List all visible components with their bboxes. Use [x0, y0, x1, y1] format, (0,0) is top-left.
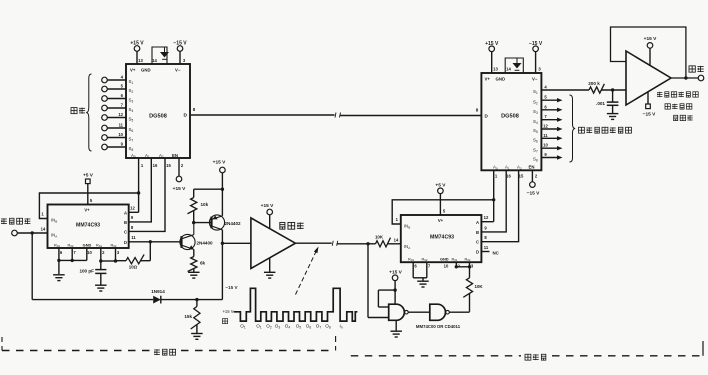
svg-text:C: C: [124, 230, 127, 235]
svg-text:8: 8: [131, 225, 134, 230]
ground under C2: [607, 114, 619, 120]
svg-text:12: 12: [543, 124, 548, 129]
svg-text:O2: O2: [266, 324, 272, 330]
svg-text:S7: S7: [129, 137, 134, 143]
U6 +15V supply terminal: [644, 36, 657, 65]
U4 output C wire to U3 A2: [481, 170, 518, 241]
svg-text:EN: EN: [172, 153, 178, 158]
svg-text:S3: S3: [129, 98, 134, 104]
svg-text:16: 16: [506, 174, 511, 179]
svg-text:R02: R02: [68, 242, 74, 248]
resistor R5 10k on receive clock input: [366, 235, 401, 247]
U1 address A1 wire: [129, 158, 158, 222]
svg-text:R01: R01: [452, 256, 458, 262]
ground under U4 pins 6,7: [417, 281, 429, 287]
svg-text:−15 V: −15 V: [225, 285, 238, 290]
binary counter U2 MM74C93 body: [48, 205, 129, 249]
svg-text:S5: S5: [533, 128, 538, 134]
input terminal S6 (pin 11): [102, 123, 134, 134]
waveform annotation arrow: [296, 247, 319, 295]
receive-end dashed border (jieshouduan): [351, 341, 703, 360]
svg-text:S6: S6: [533, 138, 538, 144]
svg-text:S1: S1: [533, 89, 538, 95]
svg-text:+15 V: +15 V: [173, 186, 186, 192]
svg-text:MM74C93: MM74C93: [430, 235, 454, 241]
svg-text:10: 10: [543, 143, 548, 148]
svg-text:7: 7: [428, 264, 431, 269]
U4 +5V supply terminal (pin 5): [435, 183, 446, 215]
svg-text:GND: GND: [141, 68, 151, 73]
NAND gate U5b: [408, 304, 469, 320]
svg-text:MM74C93: MM74C93: [76, 223, 100, 229]
svg-text:V−: V−: [532, 77, 538, 82]
svg-text:O7: O7: [316, 324, 322, 330]
svg-text:V+: V+: [438, 218, 444, 223]
svg-text:D: D: [476, 250, 479, 255]
receive counter U4 MM74C93 body: [401, 215, 482, 262]
svg-text:C: C: [476, 240, 479, 245]
svg-text:S2: S2: [129, 88, 134, 94]
svg-text:9: 9: [121, 142, 124, 147]
svg-text:O5: O5: [296, 324, 302, 330]
FET-input op-amp U6: [626, 51, 671, 105]
svg-text:12: 12: [484, 215, 489, 220]
svg-text:14: 14: [394, 237, 399, 242]
svg-text:10K: 10K: [375, 235, 384, 240]
input brace and label (shuru): [71, 74, 92, 151]
ground under U2 reset bus: [53, 275, 65, 281]
U5a pull-up to +15V terminal: [378, 269, 402, 307]
svg-text:8: 8: [193, 107, 196, 112]
svg-text:S1: S1: [129, 79, 134, 85]
svg-text:O1: O1: [240, 324, 246, 330]
waveform level label di (ground): [223, 319, 228, 324]
svg-text:2N4400: 2N4400: [197, 241, 214, 246]
svg-text:11: 11: [131, 235, 136, 240]
svg-text:S8: S8: [533, 157, 538, 163]
svg-text:R01: R01: [54, 242, 60, 248]
svg-text:+15 V: +15 V: [644, 36, 657, 42]
svg-text:3: 3: [538, 67, 541, 72]
svg-text:6: 6: [414, 264, 417, 269]
svg-text:INB: INB: [51, 218, 57, 224]
U1 output D (pin 8) wire to receive side: [190, 107, 481, 118]
svg-text:5: 5: [121, 84, 124, 89]
svg-text:11: 11: [119, 123, 124, 128]
input terminal S1 (pin 4): [102, 75, 134, 86]
input terminal S8 (pin 9): [102, 142, 134, 153]
resistor R2 10k: [187, 188, 224, 225]
A1 +15V supply terminal: [261, 203, 274, 229]
svg-text:V−: V−: [175, 68, 181, 73]
resistor R3 6k on Q2 emitter: [188, 249, 206, 272]
svg-text:12: 12: [118, 112, 123, 117]
U3 enable EN to -15V terminal: [495, 170, 540, 196]
U3 +15V supply terminal (pin 13): [485, 41, 499, 73]
buffer op-amp A1 (huanchongqi): [251, 218, 304, 269]
diode D1 1N914 on sync line: [32, 233, 222, 304]
svg-text:6: 6: [544, 104, 547, 109]
ground under R4: [191, 334, 203, 340]
svg-text:O8: O8: [325, 324, 331, 330]
svg-text:DG508: DG508: [149, 114, 167, 120]
analog multiplexer U1 DG508 body: [126, 64, 190, 159]
svg-text:S7: S7: [533, 147, 538, 153]
svg-text:INB: INB: [404, 224, 410, 230]
svg-text:S8: S8: [129, 146, 134, 152]
svg-text:7: 7: [73, 250, 76, 255]
svg-text:NC: NC: [493, 251, 500, 256]
svg-text:13: 13: [493, 67, 498, 72]
svg-text:14: 14: [41, 227, 46, 232]
svg-text:10Ω: 10Ω: [129, 265, 138, 270]
svg-text:1: 1: [495, 174, 498, 179]
resistor R7 200k: [541, 81, 626, 93]
svg-text:10: 10: [444, 264, 449, 269]
svg-text:+15 V: +15 V: [261, 203, 274, 209]
svg-text:2: 2: [102, 250, 105, 255]
analog multiplexer U3 DG508 body: [481, 73, 541, 171]
svg-text:S6: S6: [129, 127, 134, 133]
+15V supply terminal above Q1: [213, 160, 226, 216]
svg-text:S3: S3: [533, 109, 538, 115]
svg-text:B: B: [476, 230, 479, 235]
U4 output B wire to U3 A1: [481, 170, 506, 232]
svg-text:11: 11: [484, 245, 489, 250]
svg-text:16: 16: [153, 163, 158, 168]
svg-text:GND: GND: [440, 256, 449, 261]
svg-text:15: 15: [519, 174, 524, 179]
resistor R6 10k: [463, 267, 483, 312]
U6 feedback loop wire: [611, 27, 686, 78]
svg-text:GND: GND: [496, 77, 506, 82]
svg-text:V+: V+: [84, 208, 90, 213]
svg-text:11: 11: [543, 133, 548, 138]
U2 output B (pin 9): [131, 215, 134, 220]
U2 clock input terminal (shizhong shuru): [1, 218, 48, 236]
svg-text:2: 2: [535, 174, 538, 179]
ground under A1: [264, 258, 276, 278]
svg-text:+15 V: +15 V: [222, 309, 233, 314]
svg-text:5: 5: [443, 209, 446, 214]
svg-text:7: 7: [121, 103, 124, 108]
svg-text:2N4402: 2N4402: [225, 221, 242, 226]
svg-text:3: 3: [183, 58, 186, 63]
svg-text:O6: O6: [306, 324, 312, 330]
svg-text:+15 V: +15 V: [213, 160, 226, 166]
transmit-end dashed border (fasongduan): [2, 336, 336, 355]
svg-text:4: 4: [121, 75, 124, 80]
svg-text:4: 4: [544, 85, 547, 90]
svg-text:O4: O4: [285, 324, 291, 330]
svg-text:A: A: [476, 220, 479, 225]
resistor R4 15k to ground: [184, 300, 200, 333]
capacitor C1 100pF on pin 2 node: [79, 248, 117, 285]
svg-text:1: 1: [41, 212, 44, 217]
svg-text:100 pF: 100 pF: [79, 268, 94, 273]
U2 output D (pin 11) wire to Q2 base: [129, 235, 182, 244]
U1 GND pin 14 bracket and ground: [152, 47, 169, 64]
svg-text:DG508: DG508: [501, 114, 519, 120]
svg-text:2: 2: [458, 263, 461, 268]
svg-text:14: 14: [506, 67, 511, 72]
svg-text:INA: INA: [51, 233, 57, 239]
resistor R1 10 ohm from pin 3 to D line: [116, 242, 151, 270]
svg-text:9: 9: [484, 225, 487, 230]
svg-text:A: A: [124, 210, 127, 215]
svg-text:R02: R02: [465, 256, 471, 262]
svg-text:O3: O3: [275, 324, 281, 330]
capacitor C2 .001: [596, 90, 618, 113]
svg-text:10K: 10K: [475, 284, 484, 289]
svg-text:12: 12: [130, 206, 135, 211]
U1 address A2 wire: [129, 158, 172, 231]
U2 output C (pin 8): [131, 225, 134, 230]
svg-text:D: D: [485, 114, 489, 119]
svg-text:3: 3: [471, 263, 474, 268]
svg-text:5: 5: [90, 198, 93, 203]
U4 pins 2,3 bus to R6: [455, 262, 474, 268]
input terminal S4 (pin 7): [102, 103, 134, 114]
svg-text:.001: .001: [596, 101, 605, 106]
ground under R3: [188, 272, 200, 278]
transistor Q1 2N4402 (PNP): [194, 215, 241, 230]
svg-text:EN: EN: [529, 165, 535, 170]
NAND gate U5a: [368, 304, 408, 320]
U6 label (changxiaoying jingtiguan shuru fanxiang fangdaqi): [657, 92, 698, 121]
svg-text:1N914: 1N914: [151, 289, 165, 294]
svg-text:+5 V: +5 V: [83, 173, 94, 179]
svg-text:V+: V+: [485, 77, 491, 82]
svg-text:B: B: [124, 220, 127, 225]
svg-text:6: 6: [121, 93, 124, 98]
U1 -15V supply terminal (pin 3): [173, 41, 187, 65]
U6 -15V supply terminal: [643, 92, 656, 118]
svg-text:2: 2: [181, 163, 184, 168]
waveform level label +15V: [222, 309, 233, 314]
svg-text:S4: S4: [129, 107, 134, 113]
svg-text:9: 9: [544, 152, 547, 157]
U4 INB feedback wire: [392, 198, 495, 224]
svg-text:10k: 10k: [201, 202, 209, 207]
U4 reset pins 6,7 to ground: [413, 262, 449, 281]
svg-text:S2: S2: [533, 99, 538, 105]
U6 output terminal (shuchu): [671, 66, 704, 81]
svg-text:13: 13: [138, 58, 143, 63]
svg-text:6: 6: [60, 250, 63, 255]
U3 input D (pin 8) label: [476, 107, 479, 112]
svg-text:15: 15: [166, 163, 171, 168]
U2 reset bus pins 6,7 to ground: [57, 248, 92, 274]
A1 output wire with cable break: [295, 241, 368, 246]
svg-text:15k: 15k: [184, 314, 192, 319]
svg-text:R02: R02: [422, 256, 428, 262]
U3 GND pin 14 bracket and ground: [505, 58, 523, 73]
svg-text:+15 V: +15 V: [389, 269, 402, 275]
svg-text:S5: S5: [129, 117, 134, 123]
svg-text:MM74C00 OR CD4011: MM74C00 OR CD4011: [416, 324, 461, 329]
output brace and label (zhi gao zukang fangdaqi): [570, 95, 632, 162]
U2 +5V supply terminal (pin 5): [83, 173, 94, 205]
waveform slot labels O1-O8: [240, 324, 342, 330]
U1 +15V supply terminal (pin 13): [130, 41, 144, 65]
U3 outputs S1-S8 with arrows: [533, 85, 563, 163]
U4 output A wire to U3 A0: [481, 170, 493, 221]
svg-text:O1: O1: [256, 324, 262, 330]
svg-text:GND: GND: [83, 242, 92, 247]
svg-text:8: 8: [484, 235, 487, 240]
svg-text:9: 9: [131, 215, 134, 220]
svg-text:10: 10: [118, 132, 123, 137]
U1 address A0 wire: [137, 158, 144, 212]
wire from composite line to U5a input: [367, 244, 369, 318]
svg-text:5: 5: [544, 95, 547, 100]
svg-text:R02: R02: [111, 242, 117, 248]
U1 enable EN to +15V terminal: [173, 158, 186, 192]
svg-text:14: 14: [152, 58, 157, 63]
svg-text:7: 7: [544, 114, 547, 119]
input terminal S3 (pin 6): [102, 93, 134, 104]
U2 output A (pin 12) wire: [129, 206, 139, 213]
svg-text:D: D: [184, 113, 188, 119]
U3 -15V supply terminal (pin 3): [529, 41, 543, 73]
U2 INB feedback wire from QA node: [39, 193, 138, 219]
svg-text:1: 1: [141, 163, 144, 168]
Q1 collector node wire to buffer and down: [221, 230, 251, 300]
ground under C1: [95, 285, 107, 291]
svg-text:3: 3: [117, 250, 120, 255]
input terminal S7 (pin 10): [102, 132, 134, 143]
input terminal S2 (pin 5): [102, 84, 134, 95]
svg-text:6k: 6k: [200, 261, 206, 266]
svg-text:−15 V: −15 V: [643, 112, 656, 118]
ground under U5a: [390, 320, 402, 337]
gate label MM74C00 OR CD4011: [416, 324, 461, 329]
svg-text:In: In: [340, 324, 343, 330]
svg-text:200 k: 200 k: [588, 81, 600, 86]
svg-text:R01: R01: [96, 242, 102, 248]
U4 output D pin 11 NC: [481, 245, 499, 256]
svg-text:V+: V+: [130, 68, 136, 73]
svg-text:1: 1: [396, 217, 399, 222]
svg-text:INA: INA: [404, 244, 410, 250]
svg-text:10: 10: [87, 250, 92, 255]
svg-text:S4: S4: [533, 119, 538, 125]
composite signal waveform: [234, 288, 358, 321]
transistor Q2 2N4400 (NPN): [180, 223, 213, 250]
svg-text:D: D: [124, 240, 127, 245]
input terminal S5 (pin 12): [102, 112, 134, 123]
svg-text:8: 8: [476, 107, 479, 112]
svg-text:R01: R01: [408, 256, 414, 262]
svg-text:−15 V: −15 V: [527, 191, 540, 197]
waveform level label -15V: [225, 285, 238, 290]
